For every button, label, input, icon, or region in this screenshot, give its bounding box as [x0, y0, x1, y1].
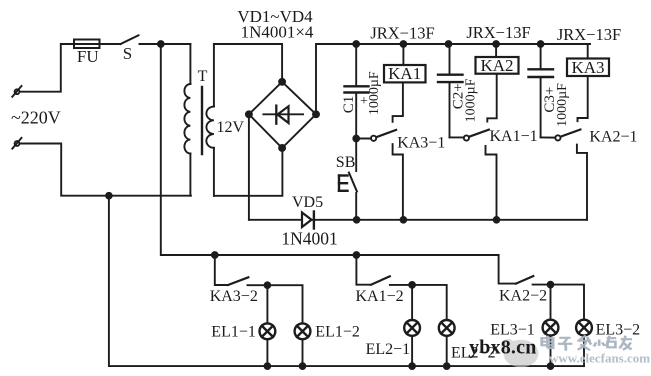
transformer core	[201, 87, 203, 154]
svg-text:C1: C1	[341, 96, 357, 114]
capacitor C3	[529, 44, 554, 137]
wire bridge minus down	[248, 114, 250, 220]
node KA2 bottom rail	[494, 217, 500, 223]
terminal N	[12, 138, 21, 149]
diode VD5	[302, 212, 314, 229]
svg-text:www.elecfans.com: www.elecfans.com	[549, 351, 650, 366]
svg-text:JRX−13F: JRX−13F	[557, 25, 621, 44]
contact KA2-2	[499, 255, 584, 319]
wire	[20, 44, 75, 92]
svg-text:1N4001×4: 1N4001×4	[241, 23, 314, 42]
svg-text:VD5: VD5	[292, 194, 323, 211]
svg-text:KA1−2: KA1−2	[356, 288, 404, 305]
wire	[140, 43, 191, 45]
wire secondary top to bridge top	[214, 44, 282, 82]
svg-text:~220V: ~220V	[11, 108, 61, 128]
transformer T primary	[184, 44, 190, 196]
svg-text:12V: 12V	[217, 119, 245, 136]
contact KA1-2	[356, 255, 446, 320]
svg-text:EL2−1: EL2−1	[366, 341, 411, 358]
svg-text:KA2: KA2	[480, 56, 513, 75]
wire lamp feed	[161, 44, 499, 255]
svg-text:1000µF: 1000µF	[367, 71, 382, 115]
svg-text:JRX−13F: JRX−13F	[466, 23, 530, 42]
negative rail right	[313, 219, 587, 221]
contact KA3-2	[215, 255, 303, 323]
contact KA2-1	[541, 76, 588, 220]
svg-text:1000µF: 1000µF	[555, 83, 570, 127]
svg-text:KA2−2: KA2−2	[499, 288, 547, 305]
svg-text:1N4001: 1N4001	[281, 228, 337, 248]
node C3 top	[538, 41, 544, 47]
wire	[266, 285, 268, 323]
node EL2-1 top	[409, 282, 415, 288]
lamp EL2-1	[404, 320, 420, 336]
wire	[20, 144, 191, 196]
node EL1-1 top	[265, 282, 271, 288]
lamp EL3-2	[576, 320, 592, 336]
bottom rail	[109, 196, 584, 366]
node C1 bottom junction	[353, 136, 359, 142]
relay coil KA2	[476, 44, 519, 74]
node junction primary bottom	[106, 193, 112, 199]
capacitor C1	[345, 44, 369, 139]
contact KA3-1	[356, 82, 403, 219]
svg-text:KA1−1: KA1−1	[490, 128, 538, 145]
transformer T secondary	[206, 44, 214, 196]
svg-text:KA2−1: KA2−1	[589, 129, 637, 146]
svg-text:KA3: KA3	[571, 58, 604, 77]
wire	[411, 285, 413, 320]
node KA1 rail	[401, 41, 407, 47]
svg-text:JRX−13F: JRX−13F	[370, 24, 434, 43]
svg-text:1000µF: 1000µF	[464, 78, 479, 122]
node C1 top	[353, 41, 359, 47]
watermark blob	[501, 339, 539, 367]
relay coil KA3	[567, 44, 609, 76]
svg-text:KA1: KA1	[388, 64, 421, 83]
svg-text:EL1−2: EL1−2	[315, 323, 360, 340]
node SB bottom rail	[354, 217, 360, 223]
svg-text:EL1−1: EL1−1	[211, 323, 256, 340]
svg-text:T: T	[198, 68, 208, 85]
bridge rectifier VD1-VD4	[246, 79, 319, 151]
wires lamps group3 to bottom rail	[550, 336, 552, 366]
wires lamps group2 to bottom rail	[411, 336, 413, 366]
node KA1 bottom rail	[401, 217, 407, 223]
wire secondary bottom to bridge	[214, 148, 283, 196]
fuse FU	[74, 40, 100, 49]
svg-text:FU: FU	[77, 47, 99, 66]
lamp rail nodes	[212, 252, 218, 258]
svg-text:KA3−2: KA3−2	[210, 288, 258, 305]
wire	[100, 43, 121, 45]
pushbutton SB	[339, 139, 357, 220]
wire bridge plus to top rail	[316, 44, 590, 114]
svg-text:KA3−1: KA3−1	[397, 135, 445, 152]
node C2 top	[446, 41, 452, 47]
svg-text:EL3−2: EL3−2	[596, 322, 641, 339]
capacitor C2	[438, 44, 463, 137]
node KA2 rail	[493, 41, 499, 47]
svg-text:SB: SB	[336, 154, 356, 171]
relay coil KA1	[384, 44, 426, 82]
watermark elecfans logo glyphs	[542, 335, 632, 350]
wire	[550, 285, 552, 320]
lamp EL1-1	[260, 323, 276, 339]
svg-text:S: S	[123, 44, 132, 63]
wires lamps group1 to bottom rail	[266, 340, 268, 366]
contact KA1-1	[450, 75, 497, 220]
svg-text:ybx8.cn: ybx8.cn	[469, 337, 537, 359]
lamp EL3-1	[543, 320, 559, 336]
negative rail	[249, 219, 300, 221]
node EL3-1 top	[548, 282, 554, 288]
node junction	[158, 41, 164, 47]
lamp EL2-2	[439, 320, 455, 336]
terminal L	[12, 86, 21, 97]
switch S	[121, 35, 139, 44]
lamp EL1-2	[295, 323, 311, 339]
